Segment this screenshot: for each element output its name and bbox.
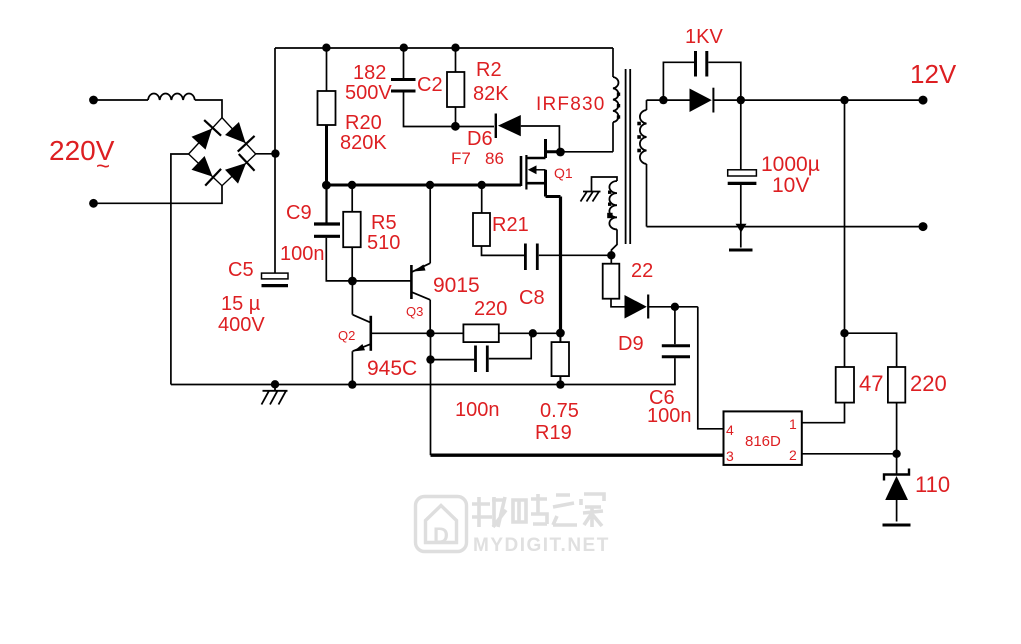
zener 110 — [896, 454, 898, 475]
AC input terminal top — [89, 96, 98, 105]
watermark logo box — [416, 497, 467, 552]
svg-text:9015: 9015 — [433, 274, 480, 297]
node R19 bottom — [556, 380, 564, 388]
wire pin1 — [802, 403, 845, 423]
capacitor C8 — [524, 244, 527, 271]
wire gate bus — [326, 184, 521, 187]
wire 12V rail — [713, 99, 923, 101]
capacitor C2 — [403, 48, 405, 78]
capacitor 100n base — [431, 359, 475, 361]
svg-text:3: 3 — [726, 448, 734, 464]
svg-text:F7 86: F7 86 — [451, 149, 504, 168]
node feedback tap — [840, 96, 848, 104]
svg-text:C2: C2 — [417, 74, 443, 96]
capacitor 1KV snubber — [663, 62, 694, 100]
resistor 220 base — [463, 324, 498, 342]
transformer core — [625, 69, 627, 244]
watermark chinese strokes — [472, 494, 604, 527]
node Q2 emitter bus — [348, 380, 356, 388]
svg-text:182: 182 — [353, 62, 386, 84]
node R5 top — [348, 181, 356, 189]
svg-text:C9: C9 — [286, 202, 312, 224]
terminal 12V plus — [919, 96, 928, 105]
ground output — [740, 231, 742, 248]
svg-text:1: 1 — [789, 416, 797, 432]
svg-text:IRF830: IRF830 — [536, 94, 606, 115]
node Q1 source sense — [556, 329, 565, 338]
svg-text:100n: 100n — [280, 243, 325, 265]
bridge rectifier diamond — [189, 118, 256, 186]
node C5 bus — [271, 380, 279, 388]
resistor R21 — [481, 185, 483, 213]
wire L1 to bridge top — [195, 100, 222, 118]
wire secondary top — [647, 99, 664, 101]
node 1000u bottom — [736, 224, 747, 233]
resistor R20 — [326, 48, 328, 91]
svg-text:22: 22 — [631, 260, 653, 282]
wire Q1 drain — [546, 150, 563, 153]
svg-text:400V: 400V — [218, 314, 265, 336]
node Q1 drain — [556, 148, 565, 157]
node R20 bottom gate bus — [322, 181, 331, 190]
node 100n right riser — [529, 329, 537, 337]
svg-text:220: 220 — [910, 371, 947, 396]
svg-text:1KV: 1KV — [685, 26, 723, 48]
svg-text:D6: D6 — [467, 128, 493, 150]
svg-text:R2: R2 — [476, 59, 502, 81]
svg-text:C5: C5 — [228, 259, 254, 281]
svg-text:47: 47 — [859, 371, 883, 396]
svg-text:2: 2 — [789, 447, 797, 463]
mosfet Q1 IRF830 — [521, 139, 561, 197]
bridge diode D-bottomright — [224, 154, 255, 185]
bridge diode D-bottomleft — [190, 155, 221, 186]
node Q2 base — [426, 329, 434, 337]
ground chassis aux — [581, 192, 601, 202]
diode output — [663, 99, 689, 101]
svg-text:R5: R5 — [371, 212, 397, 234]
svg-text:220: 220 — [474, 298, 507, 320]
node R2 top — [451, 44, 459, 52]
svg-text:C8: C8 — [519, 287, 545, 309]
transistor Q3 9015 — [410, 265, 413, 299]
svg-text:1000µ: 1000µ — [761, 153, 820, 176]
node divider top — [840, 329, 848, 337]
svg-text:4: 4 — [726, 422, 734, 438]
svg-text:945C: 945C — [367, 357, 417, 380]
wire DC plus rail vertical — [274, 48, 276, 273]
resistor 220 fb — [888, 367, 905, 403]
resistor 47 — [844, 333, 846, 367]
ground symbol primary — [262, 385, 288, 405]
svg-text:0.75: 0.75 — [540, 400, 579, 422]
transformer secondary — [646, 100, 648, 110]
wire R2 node to D6 — [455, 126, 494, 128]
terminal 12V minus — [919, 222, 928, 231]
wire AC bottom to bridge — [97, 186, 222, 204]
wire 12V feedback drop — [844, 100, 846, 333]
node Q3 emitter bus — [426, 181, 434, 189]
wire pin4 — [698, 307, 724, 429]
node R20 top — [322, 44, 330, 52]
svg-text:Q2: Q2 — [338, 328, 355, 343]
node C2 top — [400, 44, 408, 52]
svg-text:10V: 10V — [772, 174, 809, 197]
svg-text:100n: 100n — [647, 405, 692, 427]
svg-text:12V: 12V — [910, 59, 957, 89]
ground bus wire — [171, 384, 676, 386]
wire divider branch — [845, 333, 897, 367]
wire AC top — [97, 99, 148, 101]
node snubber right — [737, 96, 745, 104]
svg-text:D: D — [433, 523, 449, 548]
svg-text:R19: R19 — [535, 422, 572, 444]
node snubber left — [659, 96, 667, 104]
svg-text:Q3: Q3 — [406, 304, 423, 319]
resistor R2 — [455, 48, 457, 72]
node R5 bottom — [348, 277, 357, 286]
svg-text:MYDIGIT.NET: MYDIGIT.NET — [473, 535, 610, 556]
node bridge plus — [271, 149, 279, 157]
wire 0V rail — [647, 226, 924, 228]
resistor R19 0.75 — [559, 333, 561, 342]
svg-text:Q1: Q1 — [554, 165, 573, 181]
svg-text:82K: 82K — [473, 83, 509, 105]
svg-text:15 µ: 15 µ — [221, 293, 261, 315]
capacitor 1000u — [740, 100, 742, 170]
bridge diode D-topright — [224, 121, 255, 152]
svg-text:D9: D9 — [618, 333, 644, 355]
resistor R5 — [351, 185, 353, 212]
wire pin2 — [802, 453, 897, 455]
capacitor C6 — [674, 307, 676, 344]
opto 816D box U1 — [724, 411, 802, 465]
svg-text:R21: R21 — [492, 214, 529, 236]
svg-text:100n: 100n — [455, 399, 500, 421]
node aux winding bottom — [607, 251, 615, 259]
diode D9 — [625, 295, 647, 319]
bridge diode D-topleft — [190, 120, 221, 151]
AC input terminal bottom — [89, 199, 98, 208]
ground zener — [883, 524, 911, 527]
capacitor C5 — [262, 273, 289, 279]
svg-text:820K: 820K — [340, 132, 387, 154]
wire bridge plus to rail — [256, 153, 275, 155]
node R2 bottom — [451, 122, 460, 131]
wire D6 to drain node — [521, 126, 560, 152]
svg-text:500V: 500V — [345, 82, 392, 104]
wire bridge minus down to ground bus — [171, 154, 189, 385]
capacitor C9 — [325, 185, 327, 223]
wire drain to primary — [562, 151, 613, 153]
transistor Q2 945C — [369, 316, 372, 351]
wire Q1 source line — [559, 197, 562, 334]
wire opto emitter riser — [430, 333, 432, 455]
resistor 22 — [610, 255, 612, 263]
node 100n left — [426, 355, 434, 363]
svg-text:110: 110 — [915, 472, 950, 497]
wire Q2 base — [372, 332, 463, 334]
transformer aux winding — [592, 177, 618, 192]
wire pin3 run — [431, 454, 724, 457]
node D9 cathode — [671, 303, 679, 311]
wire top rail — [275, 47, 613, 49]
svg-text:510: 510 — [367, 232, 400, 254]
svg-text:~: ~ — [96, 153, 110, 180]
svg-text:816D: 816D — [745, 433, 781, 450]
node R21 top — [478, 181, 486, 189]
inductor L1 — [148, 93, 195, 100]
diode D6 — [495, 114, 497, 139]
svg-text:R20: R20 — [345, 112, 382, 134]
node pin2 zener — [892, 450, 900, 458]
transformer T1 primary — [612, 48, 614, 77]
